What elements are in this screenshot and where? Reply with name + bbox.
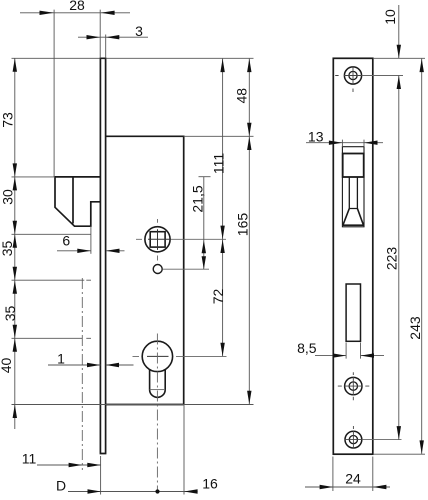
dim 6 line: [57, 250, 125, 252]
dim 1 line: [48, 364, 134, 366]
dim 10 / 223 line: [398, 5, 400, 440]
svg-text:35: 35: [0, 241, 15, 257]
dim 243 arrows: [420, 59, 424, 454]
svg-text:21,5: 21,5: [190, 185, 206, 212]
svg-text:10: 10: [382, 9, 398, 25]
dim 13 arrows: [329, 141, 378, 145]
follower square (spindle hub): [145, 227, 170, 252]
dim 223 arrow: [397, 426, 401, 440]
svg-text:3: 3: [135, 23, 143, 39]
latch stem: [349, 177, 357, 209]
faceplate (left view, edge-on): [100, 58, 107, 453]
dim 3 arrows: [87, 35, 120, 39]
dim 16 arrow: [184, 489, 198, 493]
svg-text:48: 48: [233, 88, 249, 104]
top screw hole: [344, 67, 361, 84]
svg-text:16: 16: [202, 476, 218, 492]
24 extensions: [333, 457, 373, 492]
screw hole reference extensions: [362, 76, 403, 440]
dim 111 arrows: [220, 59, 224, 240]
13 window extensions: [342, 140, 364, 147]
latch step extension for 6: [90, 226, 92, 254]
svg-text:35: 35: [2, 306, 18, 322]
follower centerlines: [136, 219, 226, 261]
top extension lines: [54, 10, 106, 177]
dim 8,5 arrows: [333, 353, 374, 357]
dim 11 line: [37, 464, 101, 466]
dim 28 arrows: [40, 11, 115, 15]
dim 48 arrows: [247, 59, 251, 137]
dim 1 arrows: [87, 363, 119, 367]
svg-text:73: 73: [0, 112, 16, 128]
dim 10 arrows: [397, 45, 401, 89]
svg-text:24: 24: [345, 471, 361, 487]
dim 3 line: [78, 36, 148, 38]
case bottom level line: [12, 404, 254, 406]
svg-text:40: 40: [0, 358, 14, 374]
small hole below follower: [153, 265, 162, 274]
dim 11 arrows: [69, 463, 101, 467]
latch bevel (front): [343, 209, 364, 226]
dim 13 line: [306, 142, 383, 144]
faceplate top level line: [12, 57, 254, 59]
cylinder centerlines: [133, 334, 227, 494]
svg-text:30: 30: [0, 189, 15, 205]
left chain arrows: [13, 58, 17, 72]
right view top/bottom extensions: [373, 58, 425, 454]
dim 21,5 line: [203, 177, 205, 270]
svg-text:D: D: [56, 478, 66, 494]
latch top tick for 21,5: [199, 176, 211, 178]
dim 24 arrows: [320, 485, 387, 489]
dim 24 line: [305, 486, 390, 488]
dim D arrow and origin dot: [88, 489, 102, 493]
lock case body: [106, 136, 184, 404]
dim 8,5 line: [315, 355, 384, 357]
svg-text:6: 6: [62, 233, 70, 249]
deadbolt window: [346, 284, 360, 341]
dim 111 / 72 line: [222, 59, 224, 357]
dim 21,5 arrows: [202, 240, 206, 269]
dim D and 16 line: [68, 491, 198, 493]
svg-text:111: 111: [211, 153, 227, 174]
svg-text:165: 165: [234, 213, 250, 237]
svg-text:1: 1: [57, 351, 65, 367]
dim 72 arrows: [220, 240, 224, 357]
svg-text:72: 72: [210, 289, 226, 305]
latch window: [342, 147, 364, 227]
dim 28 line: [20, 12, 130, 14]
left chain dim line: [14, 58, 16, 429]
8,5 window extensions: [346, 343, 360, 359]
svg-text:13: 13: [308, 128, 324, 144]
small hole centerline: [163, 268, 209, 270]
screw hole centerlines (right view): [335, 66, 369, 448]
latch head (front): [343, 154, 364, 178]
profile cylinder hole: [142, 341, 172, 397]
svg-text:28: 28: [69, 0, 85, 13]
svg-text:11: 11: [22, 451, 37, 467]
dim 243 line: [421, 59, 423, 454]
dim 6 arrows: [77, 249, 119, 253]
bottom screw hole: [345, 431, 362, 448]
latch bolt (side profile): [55, 177, 100, 226]
faceplate plate outline: [333, 58, 373, 454]
dim 48 / 165 line: [248, 59, 250, 405]
svg-text:8,5: 8,5: [297, 340, 317, 356]
svg-text:243: 243: [407, 316, 423, 340]
svg-text:223: 223: [383, 247, 399, 271]
bottom extensions: [101, 405, 184, 495]
follower square cross vertical: [157, 229, 159, 250]
middle screw hole: [345, 377, 362, 394]
reference dash-dot line (door axis): [81, 278, 83, 470]
dim 165 arrows: [247, 137, 251, 405]
left chain extension lines: [12, 177, 92, 338]
case top extension: [184, 135, 254, 137]
